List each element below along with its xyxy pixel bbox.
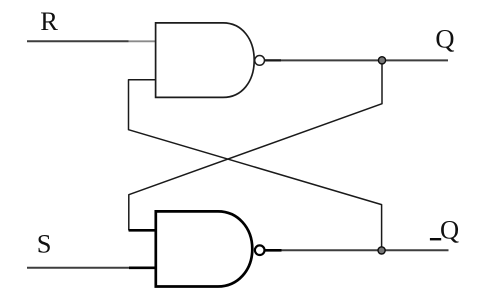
wire top gate upper input stub	[129, 40, 157, 42]
svg-text:R: R	[40, 6, 58, 36]
nand gate U1 (top, R input)	[156, 23, 255, 98]
node Q-bar junction dot	[378, 247, 385, 254]
label Q-bar underscore bar	[430, 238, 441, 240]
wire Q output stub near bubble	[265, 59, 282, 61]
svg-text:Q: Q	[435, 23, 454, 53]
wire bottom gate upper input stub	[129, 229, 156, 232]
wire R input	[27, 40, 129, 42]
wire feedback from Q to bottom gate upper input	[129, 62, 382, 230]
wire S input	[27, 267, 129, 269]
wire Q-bar output	[265, 249, 449, 251]
node Q junction dot	[378, 57, 385, 64]
svg-text:S: S	[37, 229, 52, 259]
wire Q output	[265, 59, 449, 61]
inverter bubble U1	[255, 56, 265, 66]
wire bottom gate lower input stub	[129, 266, 156, 269]
svg-text:Q: Q	[440, 214, 459, 244]
wire feedback from Q-bar to top gate lower input	[129, 80, 382, 248]
nand gate U2 (bottom, S input)	[156, 211, 253, 286]
inverter bubble U2	[255, 245, 265, 255]
wire Q-bar output stub near bubble	[265, 249, 282, 252]
